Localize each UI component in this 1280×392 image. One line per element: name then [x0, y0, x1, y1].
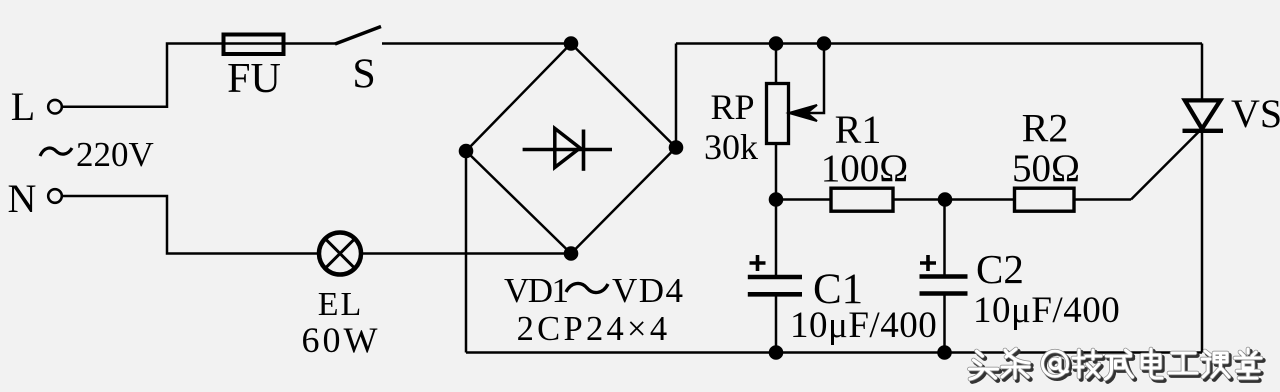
svg-text:L: L [11, 84, 35, 129]
wire node to R1 [776, 198, 830, 201]
svg-text:FU: FU [227, 56, 281, 102]
svg-text:S: S [352, 52, 375, 98]
node bridge top [564, 36, 579, 51]
node bridge bottom [564, 246, 579, 261]
wire node to C1 [775, 200, 778, 278]
wire lamp to bridge bottom [361, 252, 571, 255]
bottom rail [466, 351, 1202, 354]
watermark char dian [1142, 349, 1164, 380]
bridge diode triangle [555, 128, 580, 167]
bridge diode cathode bar [582, 130, 586, 171]
svg-text:VD1: VD1 [504, 271, 568, 310]
node C2 bottom [937, 345, 952, 360]
node bridge left [459, 144, 474, 159]
watermark background chars [970, 349, 1264, 381]
resistor R2 [1015, 188, 1075, 211]
wire L to FU [62, 44, 337, 107]
node RP bottom [769, 192, 784, 207]
svg-text:VD4: VD4 [612, 271, 685, 310]
thyristor VS triangle [1185, 100, 1220, 128]
watermark char ji [1073, 350, 1103, 379]
bridge diode lead [523, 148, 612, 151]
wire node to R2 [945, 198, 1015, 201]
node C1 bottom [769, 345, 784, 360]
node RP top [769, 36, 784, 51]
wire bridge right up to top rail [675, 44, 678, 148]
svg-text:60W: 60W [302, 320, 381, 360]
svg-text:50Ω: 50Ω [1012, 147, 1080, 190]
bridge rectifier diamond [466, 44, 676, 254]
watermark char tiao [1002, 349, 1031, 380]
thyristor VS gate wire [1131, 132, 1199, 200]
capacitor C1 [748, 277, 802, 294]
wire R2 to gate bend [1074, 198, 1131, 201]
svg-text:220V: 220V [76, 135, 154, 174]
terminal L [48, 100, 62, 114]
svg-text:10μF/400: 10μF/400 [790, 305, 937, 346]
top rail [676, 42, 1202, 45]
wire C1 to rail [775, 294, 778, 352]
label ~220V tilde [40, 148, 72, 156]
svg-text:N: N [8, 176, 37, 221]
wire S to bridge top [382, 42, 571, 45]
svg-text:C2: C2 [976, 246, 1024, 292]
label tilde between VD1 VD4 [566, 283, 608, 292]
svg-text:30k: 30k [704, 127, 758, 167]
svg-text:100Ω: 100Ω [821, 147, 908, 190]
RP wiper wire [800, 44, 824, 114]
watermark char tou [970, 351, 1000, 381]
svg-text:R2: R2 [1022, 106, 1069, 151]
svg-text:EL: EL [318, 286, 364, 323]
wire C2 to rail [943, 294, 946, 353]
watermark char cheng [1106, 350, 1135, 381]
terminal N [48, 189, 62, 203]
watermark char tang [1235, 349, 1263, 380]
watermark char gong [1169, 353, 1199, 375]
watermark char at-sign [1042, 351, 1069, 379]
capacitor C1 plus sign [750, 255, 766, 271]
potentiometer RP body [767, 84, 789, 144]
wire bridge left to bottom rail [465, 151, 468, 353]
resistor R1 [831, 188, 893, 211]
svg-text:VS: VS [1231, 91, 1280, 136]
switch S blade [335, 27, 381, 45]
wire rail to RP [775, 44, 778, 84]
wire node to C2 [943, 200, 946, 277]
svg-text:R1: R1 [835, 107, 882, 152]
svg-text:10μF/400: 10μF/400 [973, 290, 1120, 331]
wire VS cathode to bottom rail [1201, 131, 1204, 353]
wire R1 to node [894, 198, 946, 201]
wire N to lamp [62, 196, 320, 254]
capacitor C2 [920, 277, 968, 294]
watermark char ke [1202, 351, 1231, 379]
node bridge right [669, 140, 684, 155]
wire RP to node [775, 144, 778, 200]
fuse FU [224, 35, 284, 55]
thyristor VS cathode bar [1183, 129, 1224, 133]
capacitor C2 plus sign [920, 255, 936, 271]
wire top rail to VS anode [1201, 44, 1204, 102]
lamp EL [319, 233, 361, 275]
svg-text:2CP24×4: 2CP24×4 [517, 310, 671, 348]
node wiper top [817, 36, 832, 51]
node R1 right [938, 192, 953, 207]
svg-text:RP: RP [710, 87, 754, 127]
RP wiper arrowhead [789, 105, 817, 121]
